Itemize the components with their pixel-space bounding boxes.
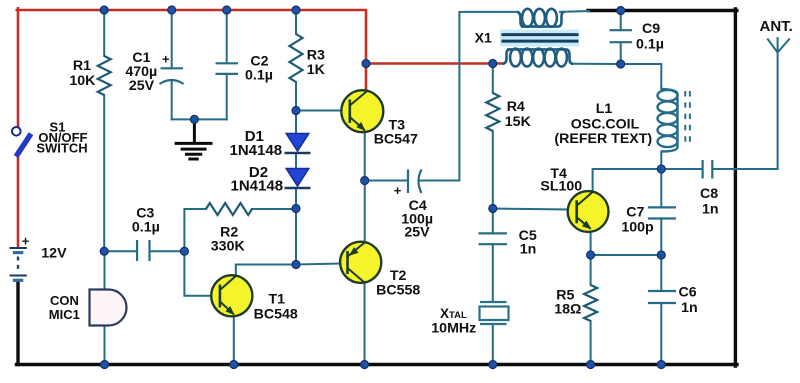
node bottom rail at T1 [230,361,238,369]
crystal XTAL 10MHz [480,302,509,324]
svg-text:1n: 1n [681,300,698,316]
wire red switch to battery [17,155,20,248]
microphone MIC1 [90,290,127,326]
svg-text:ANT.: ANT. [760,18,793,35]
diode D2 1N4148 [285,169,311,189]
transistor T4 SL100 [568,191,609,232]
capacitor C1 [160,68,184,84]
node on top rail at R1 [100,6,108,14]
wire C6 bottom lead [660,303,662,365]
svg-text:SL100: SL100 [540,179,582,195]
wire red battery positive to switch [17,8,20,127]
svg-text:330K: 330K [211,239,246,255]
svg-text:C8: C8 [700,186,718,202]
node bottom rail at MIC [101,361,109,369]
svg-text:1n: 1n [702,202,719,218]
wire XTAL bottom lead [492,324,494,365]
node R2 D2 [292,205,300,213]
wire C8 right lead to antenna [713,50,778,169]
transformer X1 core band [500,30,579,47]
wire C4 right lead up to X1 primary [421,12,518,181]
svg-text:100p: 100p [621,220,654,236]
node C3 left R1 MIC [100,247,108,255]
wire C5 top lead [492,209,494,234]
node bottom rail at R5 [587,361,595,369]
wire T1 collector to node [236,265,296,276]
wire T4 collector riser [592,169,594,192]
wire C3 right lead [150,250,184,252]
node C7 C6 junction [657,251,665,259]
wire MIC1 bottom lead [104,326,106,365]
capacitor C2 [216,63,239,74]
resistor R1 [98,56,111,95]
svg-text:10K: 10K [69,73,96,89]
capacitor C3 [137,240,149,261]
wire R3 bottom lead [295,82,297,111]
wire black battery negative to bottom rail [16,282,19,365]
antenna ANT [767,37,789,53]
node on black rail at C9 [617,7,625,15]
node on top rail at C1 [168,6,176,14]
wire R2 node to T1 collector node [295,209,297,265]
wire R2 left lead [184,209,206,251]
inductor L1 coil [661,89,677,152]
transistor T2 BC558 [340,242,381,283]
wire red horizontal to X1 secondary [366,62,503,65]
svg-text:T1: T1 [269,292,286,308]
resistor R2 [206,203,252,215]
wire R3 top lead [295,10,297,34]
svg-text:1N4148: 1N4148 [231,178,284,195]
wire T2 collector to ground rail [364,283,366,365]
transformer X1 secondary winding [503,49,511,63]
svg-text:25V: 25V [404,224,430,240]
wire R1 top lead [103,10,105,56]
wire C4 left lead [365,180,408,182]
wire node to T2 emitter [364,181,366,243]
svg-text:1N4148: 1N4148 [230,142,283,159]
ground symbol [175,122,213,159]
transformer X1 primary winding [517,12,524,27]
wire MIC1 top lead [104,251,106,289]
wire C1 bottom lead [171,80,173,119]
svg-text:10MHz: 10MHz [431,321,476,337]
wire T4 emitter down [590,229,592,255]
wire C1 top lead [171,10,173,68]
node R4 T4 base C5 [489,205,497,213]
resistor R4 [486,93,499,131]
svg-text:15K: 15K [505,114,532,130]
svg-text:+: + [394,183,402,198]
wire black top right rail [588,9,737,12]
wire T2 base [296,264,341,265]
svg-text:X1: X1 [475,31,492,47]
wire C2 top lead [226,10,228,63]
wire C7 bottom lead [660,219,662,256]
wire D1 anode lead [295,111,297,135]
svg-text:BC547: BC547 [374,131,418,147]
node T3 collector red junction [362,60,370,68]
svg-text:(REFER TEXT): (REFER TEXT) [554,131,652,147]
wire R4 top lead [492,64,494,94]
wire X1 primary right to black rail [560,10,589,13]
node bottom rail at XTAL [489,361,497,369]
svg-text:CON: CON [50,293,79,308]
wire D1 cathode to D2 anode [295,153,297,169]
diode D1 1N4148 [285,134,311,154]
node C3 right R2 T1 base [180,247,188,255]
wire R2 right lead [252,208,296,210]
wire C7 top lead [660,169,662,207]
capacitor C6 [648,291,676,303]
wire black right vertical rail [734,9,737,366]
svg-text:BC548: BC548 [254,307,298,323]
wire T4 collector row to C8 [593,168,702,170]
node T3 base D1 R3 [292,107,300,115]
switch S1 [12,127,31,157]
capacitor C8 [703,160,713,179]
wire T1 base [184,251,212,296]
resistor R3 [290,34,303,82]
wire D2 cathode to R2 node [295,188,297,208]
capacitor C7 [648,207,676,218]
wire C5 bottom to XTAL [492,244,494,301]
svg-text:MIC1: MIC1 [49,307,80,322]
transistor T3 BC547 [341,90,383,132]
inductor L1 core dashed lines [684,91,686,147]
wire red T3 collector [365,64,368,93]
node T3 emitter C4 [361,177,369,185]
battery 12V [10,248,27,280]
wire R5 top lead [590,255,592,285]
wire red top supply rail [17,10,366,64]
node T4 emitter R5 [587,251,595,259]
svg-text:R4: R4 [507,99,525,115]
wire T3 emitter down [364,131,366,181]
svg-text:T2: T2 [390,268,407,284]
svg-text:18Ω: 18Ω [554,302,581,318]
wire C9 top lead [620,11,622,31]
wire C9 bottom lead [620,42,622,64]
svg-text:+: + [162,52,170,67]
node on top rail at C2 [223,6,231,14]
wire C1-C2 to ground node [172,118,227,120]
svg-text:1n: 1n [520,241,537,257]
wire T1 emitter to ground rail [233,315,235,365]
svg-text:0.1µ: 0.1µ [132,220,160,236]
svg-text:L1: L1 [596,101,613,117]
resistor R5 [584,285,597,321]
wire R5 bottom lead [590,321,592,365]
svg-text:C6: C6 [679,284,697,300]
transistor T1 BC548 [211,275,252,316]
wire C6 top lead [660,255,662,291]
wire R1 bottom to C3 node [103,95,105,251]
node C9 bottom junction [617,60,625,68]
wire T3 base [296,110,342,112]
capacitor C5 [479,233,508,244]
svg-text:C7: C7 [626,205,644,221]
capacitor C9 [610,30,633,42]
wire X1 secondary right to C9 node [572,63,621,65]
svg-text:12V: 12V [41,246,67,262]
wire black bottom ground rail [16,363,737,366]
wire T4 base [493,209,569,210]
capacitor C4 [408,170,422,194]
node T1 collector T2 base [292,261,300,269]
svg-text:C9: C9 [642,21,660,37]
node on top rail at R3 [292,6,300,14]
svg-text:0.1µ: 0.1µ [636,37,664,53]
svg-text:R1: R1 [73,58,91,74]
node red to X1 secondary and R4 [489,60,497,68]
wire node to L1 top [621,64,662,89]
svg-text:0.1µ: 0.1µ [245,68,273,84]
svg-text:SWITCH: SWITCH [36,140,87,155]
svg-text:1K: 1K [307,62,326,78]
svg-text:+: + [22,234,30,249]
wire C2 bottom lead [226,74,228,120]
wire L1 bottom lead [660,152,662,170]
node bottom rail at C6 [657,361,665,369]
wire R4 bottom lead [492,131,494,209]
svg-text:25V: 25V [129,78,155,94]
svg-text:BC558: BC558 [376,283,420,299]
node L1 bottom C7 C8 T4 collector [657,165,665,173]
wire emitter row to C7-C6 node [591,254,662,256]
node bottom rail at T2 [361,361,369,369]
node C1 C2 ground junction [190,115,198,123]
wire C3 left lead [104,250,136,252]
